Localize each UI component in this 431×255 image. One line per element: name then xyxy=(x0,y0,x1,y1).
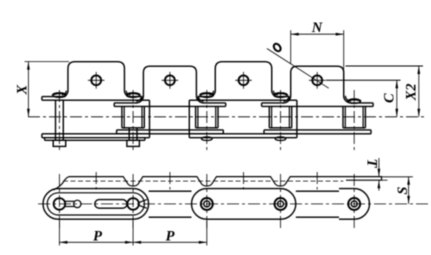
attachment K2 flange (inner link) xyxy=(114,102,137,104)
attachment flange tips profile (plan) xyxy=(54,177,382,190)
attachment K3 bent plate (outer link) xyxy=(209,62,278,97)
outer plate 2 end caps xyxy=(188,100,190,138)
svg-text:P: P xyxy=(93,229,102,245)
outer link plate top edge (elevation) 2 xyxy=(189,99,297,101)
attachment hole centerlines (plan) xyxy=(95,172,97,190)
svg-text:X2: X2 xyxy=(404,83,420,101)
attachment K1 flange (outer link) xyxy=(42,96,62,98)
attachment hole 3 xyxy=(239,75,249,85)
attachment K4 bent plate (inner link) xyxy=(284,66,351,103)
dimension S xyxy=(408,177,410,204)
attachment K3 flange (outer link) xyxy=(198,96,209,98)
svg-text:X: X xyxy=(15,85,31,96)
bushing ends (plan) xyxy=(201,198,213,210)
label O with leader xyxy=(272,42,282,52)
attachment K2 bent plate (inner link) xyxy=(136,66,203,103)
attachment K4 flange (inner link) xyxy=(262,102,285,104)
outer link plate (bottom, elevation) 1 xyxy=(42,133,150,135)
chain centerline (elevation) xyxy=(28,116,424,118)
outer plate 1 right end cap xyxy=(149,100,151,138)
cotter pin 1 (plan) xyxy=(65,200,74,202)
dimension C xyxy=(326,79,401,81)
outer link plate (bottom, elevation) 2 xyxy=(189,133,297,135)
dimension X2 xyxy=(346,65,424,67)
rollers (elevation) xyxy=(121,106,123,127)
cotter pin 2 (plan) xyxy=(139,200,147,209)
pin centerlines (plan) xyxy=(58,174,60,230)
outer link plate (plan) 1 xyxy=(43,189,149,220)
svg-text:T: T xyxy=(364,159,380,169)
chain centerline (plan) xyxy=(38,203,429,205)
pin bottom ends (ellipses) xyxy=(202,137,213,141)
svg-text:S: S xyxy=(395,187,411,195)
connecting cover plate (elevation) xyxy=(45,139,145,141)
attachment hole 4 xyxy=(312,75,322,85)
pin 2 (elevation) xyxy=(128,128,130,141)
inner link plate end (plan) xyxy=(339,189,369,220)
end pin top end (ellipse, on inner flange) xyxy=(348,99,360,103)
pin top ends (ellipses) xyxy=(53,93,66,97)
pin centerlines (elevation) xyxy=(58,90,60,152)
svg-text:P: P xyxy=(166,229,175,245)
inner link plate edges (plan) xyxy=(149,190,192,192)
inner link plate (bottom, elevation) left xyxy=(117,129,224,131)
outer link plate top edge (elevation) 1 xyxy=(42,99,150,101)
attachment hole 1 xyxy=(91,75,101,85)
pin 1 (elevation) xyxy=(55,100,57,140)
svg-text:C: C xyxy=(382,93,398,103)
svg-text:N: N xyxy=(311,20,323,36)
dimension X xyxy=(25,61,70,63)
spring clip slot (plan) xyxy=(95,200,127,209)
dimension N xyxy=(290,30,292,63)
attachment hole 2 xyxy=(165,75,175,85)
attachment K1 bent plate (outer link) xyxy=(62,62,131,97)
dimension P (pitch) x2 xyxy=(58,221,60,246)
hidden edge of attachments (plan, dashed) xyxy=(63,180,343,182)
pin 1 head (plan) xyxy=(54,198,66,210)
pin 2 head (plan) xyxy=(127,198,139,210)
outer link plate (plan) 2 xyxy=(192,189,296,220)
inner link plate (bottom, elevation) right xyxy=(264,129,371,131)
